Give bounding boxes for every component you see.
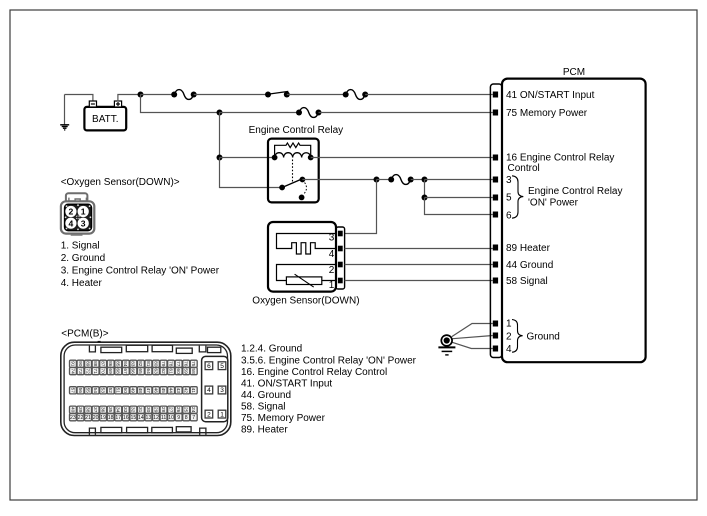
PCM(B) connector outer shell: [61, 342, 231, 435]
brace pins 3-5-6: [512, 176, 523, 218]
svg-text:84: 84: [122, 361, 128, 367]
svg-text:33: 33: [122, 407, 128, 413]
svg-text:63: 63: [152, 368, 158, 374]
svg-text:2: 2: [506, 332, 512, 343]
PCM(B) bottom tabs: [89, 427, 205, 435]
svg-text:36: 36: [99, 407, 105, 413]
wire relay switch out: [302, 179, 376, 181]
svg-text:2: 2: [207, 411, 211, 418]
svg-text:4: 4: [506, 344, 512, 355]
svg-text:44. Ground: 44. Ground: [241, 390, 291, 401]
PCM(B) small pin rows: [69, 360, 197, 421]
wire down to pin 5: [424, 180, 426, 198]
svg-text:53: 53: [99, 388, 105, 394]
svg-text:54: 54: [92, 388, 98, 394]
svg-text:2: 2: [69, 207, 74, 217]
svg-text:89. Heater: 89. Heater: [241, 425, 288, 436]
svg-text:86: 86: [107, 361, 113, 367]
svg-text:85: 85: [115, 361, 121, 367]
svg-text:78: 78: [167, 361, 173, 367]
svg-text:62: 62: [160, 368, 166, 374]
svg-text:12: 12: [153, 415, 159, 421]
PCM pin 16: [493, 155, 498, 161]
svg-text:60: 60: [175, 368, 181, 374]
brace pins 1-2-4: [512, 320, 523, 353]
PCM pin 41: [493, 92, 498, 98]
svg-text:89 Heater: 89 Heater: [506, 243, 551, 254]
wire down and to PCM pin 6: [425, 198, 493, 215]
svg-text:42: 42: [182, 388, 188, 394]
wire sensor pin 1 to PCM 58: [345, 280, 493, 282]
wire down to oxygen sensor pin 3: [345, 180, 377, 234]
svg-text:67: 67: [122, 368, 128, 374]
svg-text:75. Memory Power: 75. Memory Power: [241, 413, 326, 424]
svg-text:56: 56: [77, 388, 83, 394]
svg-text:59: 59: [183, 368, 189, 374]
wire ground to PCM pin 2: [453, 336, 493, 339]
relay K1 Engine Control Relay box: [268, 139, 319, 203]
wire switch to fuse 2: [287, 94, 346, 96]
svg-text:Control: Control: [508, 163, 540, 174]
svg-text:41. ON/START Input: 41. ON/START Input: [241, 378, 332, 389]
svg-text:20: 20: [93, 415, 99, 421]
svg-text:87: 87: [99, 361, 105, 367]
wire to fuse 1: [141, 94, 175, 96]
battery BATT.: [84, 101, 126, 130]
wire sensor pin 2 to PCM 44: [345, 264, 493, 266]
svg-text:75 Memory Power: 75 Memory Power: [506, 108, 588, 119]
wire fuse 3 to PCM pin 75: [319, 112, 493, 114]
svg-text:10: 10: [168, 415, 174, 421]
svg-text:Oxygen Sensor(DOWN): Oxygen Sensor(DOWN): [252, 296, 359, 307]
svg-text:5: 5: [220, 363, 224, 370]
svg-text:76: 76: [182, 361, 188, 367]
wire ground to PCM pin 4: [452, 342, 493, 348]
relay actuating dashed link: [292, 160, 294, 182]
svg-text:24: 24: [190, 407, 196, 413]
PCM connector strip: [490, 84, 502, 358]
PCM pin 44: [493, 262, 498, 268]
PCM pin 1: [493, 321, 498, 327]
svg-text:Engine Control Relay: Engine Control Relay: [249, 125, 344, 136]
svg-text:15: 15: [130, 415, 136, 421]
svg-text:4: 4: [329, 249, 335, 260]
wire fuse 2 to PCM pin 41: [365, 94, 493, 96]
oxygen sensor connector icon: [61, 193, 94, 236]
svg-text:44 Ground: 44 Ground: [506, 260, 553, 271]
svg-text:32: 32: [130, 407, 136, 413]
PCM pin 58: [493, 278, 498, 284]
PCM pin 2: [493, 333, 498, 339]
svg-text:74: 74: [69, 368, 75, 374]
svg-text:70: 70: [99, 368, 105, 374]
svg-text:68: 68: [115, 368, 121, 374]
svg-text:57: 57: [69, 388, 75, 394]
svg-text:34: 34: [115, 407, 121, 413]
svg-text:PCM: PCM: [563, 67, 585, 78]
wire battery positive up to bus: [118, 95, 141, 102]
svg-text:65: 65: [137, 368, 143, 374]
PCM pin 75: [493, 110, 498, 116]
svg-text:11: 11: [161, 415, 166, 421]
svg-text:17: 17: [115, 415, 121, 421]
svg-text:3. Engine Control Relay 'ON' P: 3. Engine Control Relay 'ON' Power: [61, 266, 220, 277]
svg-text:21: 21: [85, 415, 91, 421]
node pin3 junction: [422, 177, 428, 183]
svg-text:35: 35: [107, 407, 113, 413]
svg-text:30: 30: [145, 407, 151, 413]
wire down to relay coil: [219, 113, 221, 158]
svg-text:1.2.4. Ground: 1.2.4. Ground: [241, 344, 302, 355]
svg-text:31: 31: [137, 407, 143, 413]
wire sensor pin 4 to PCM 89: [345, 248, 493, 250]
svg-text:44: 44: [167, 388, 173, 394]
svg-text:71: 71: [92, 368, 98, 374]
svg-text:26: 26: [175, 407, 181, 413]
svg-text:3.5.6. Engine Control Relay 'O: 3.5.6. Engine Control Relay 'ON' Power: [241, 355, 417, 366]
PCM(B) pin 6: [205, 362, 213, 370]
node relay coil feed junction: [217, 155, 223, 161]
wire battery negative to ground: [65, 95, 93, 102]
svg-text:81: 81: [145, 361, 151, 367]
oxygen sensor connector strip: [336, 227, 345, 289]
svg-text:4: 4: [207, 387, 211, 394]
node sensor power junction: [374, 177, 380, 183]
svg-text:1: 1: [329, 280, 335, 291]
svg-text:91: 91: [69, 361, 75, 367]
svg-text:66: 66: [130, 368, 136, 374]
svg-text:13: 13: [146, 415, 152, 421]
PCM(B) pin 5: [218, 362, 226, 370]
svg-text:64: 64: [145, 368, 151, 374]
svg-text:28: 28: [160, 407, 166, 413]
svg-text:<PCM(B)>: <PCM(B)>: [61, 328, 108, 339]
svg-text:90: 90: [77, 361, 83, 367]
wire ground to PCM pin 1: [452, 324, 493, 337]
svg-text:3: 3: [329, 232, 335, 243]
wire fuse 4 to pins 3/5/6 junction: [411, 179, 425, 181]
chassis ground symbol: [438, 335, 455, 355]
svg-text:27: 27: [167, 407, 173, 413]
svg-text:72: 72: [84, 368, 90, 374]
svg-text:8: 8: [185, 415, 188, 421]
svg-text:5: 5: [506, 193, 512, 204]
svg-text:16 Engine Control Relay: 16 Engine Control Relay: [506, 153, 614, 164]
svg-text:73: 73: [77, 368, 83, 374]
svg-text:<Oxygen Sensor(DOWN)>: <Oxygen Sensor(DOWN)>: [61, 177, 180, 188]
svg-text:39: 39: [77, 407, 83, 413]
wire to PCM pin 3: [425, 179, 493, 181]
wire memory power branch down: [141, 95, 220, 113]
svg-text:18: 18: [108, 415, 114, 421]
svg-text:58: 58: [190, 368, 196, 374]
svg-text:4: 4: [69, 218, 74, 228]
PCM pin 4: [493, 346, 498, 352]
wire to PCM pin 5: [425, 197, 493, 199]
wire down to relay switch common: [220, 158, 283, 188]
svg-text:49: 49: [130, 388, 136, 394]
relay switch: [279, 177, 306, 201]
node pin5 junction: [422, 195, 428, 201]
PCM(B) top tabs: [89, 345, 220, 353]
svg-text:19: 19: [100, 415, 106, 421]
svg-text:14: 14: [138, 415, 144, 421]
svg-text:16: 16: [123, 415, 129, 421]
svg-text:61: 61: [167, 368, 173, 374]
svg-text:47: 47: [145, 388, 151, 394]
svg-text:1. Signal: 1. Signal: [61, 241, 100, 252]
svg-text:29: 29: [152, 407, 158, 413]
svg-text:2. Ground: 2. Ground: [61, 253, 105, 264]
fuse F2: [343, 90, 369, 100]
svg-text:3: 3: [506, 175, 512, 186]
svg-text:7: 7: [192, 415, 195, 421]
svg-text:1: 1: [220, 411, 224, 418]
PCM(B) pin 3: [218, 386, 226, 394]
svg-text:Engine Control Relay: Engine Control Relay: [528, 186, 623, 197]
svg-text:83: 83: [130, 361, 136, 367]
svg-text:51: 51: [115, 388, 121, 394]
node relay feed junction: [217, 110, 223, 116]
PCM box: [502, 79, 646, 363]
svg-text:69: 69: [107, 368, 113, 374]
ignition switch: [265, 91, 290, 97]
svg-text:46: 46: [152, 388, 158, 394]
svg-text:6: 6: [506, 210, 512, 221]
fuse F3: [296, 108, 322, 118]
fuse F1: [171, 90, 197, 100]
PCM(B) big-pin compartment: [202, 356, 228, 421]
svg-text:22: 22: [78, 415, 84, 421]
svg-text:9: 9: [177, 415, 180, 421]
svg-text:'ON' Power: 'ON' Power: [528, 197, 579, 208]
svg-text:3: 3: [81, 218, 86, 228]
battery ground: [60, 95, 69, 130]
svg-text:40: 40: [69, 407, 75, 413]
svg-text:2: 2: [329, 265, 335, 276]
svg-text:6: 6: [207, 363, 211, 370]
svg-text:89: 89: [84, 361, 90, 367]
wire junction to relay coil left: [220, 157, 275, 159]
sensor heater element: [277, 234, 338, 255]
svg-text:1: 1: [506, 319, 512, 330]
svg-text:Ground: Ground: [527, 331, 560, 342]
PCM(B) pin 1: [218, 410, 226, 418]
svg-text:55: 55: [84, 388, 90, 394]
svg-text:BATT.: BATT.: [92, 114, 118, 125]
svg-text:1: 1: [81, 207, 86, 217]
svg-text:43: 43: [175, 388, 181, 394]
PCM pin 89: [493, 245, 498, 251]
svg-text:23: 23: [70, 415, 76, 421]
svg-text:3: 3: [220, 387, 224, 394]
svg-text:58. Signal: 58. Signal: [241, 401, 285, 412]
fuse F4: [388, 175, 414, 185]
svg-text:45: 45: [160, 388, 166, 394]
svg-text:4. Heater: 4. Heater: [61, 278, 103, 289]
relay coil: [272, 153, 314, 161]
svg-text:80: 80: [152, 361, 158, 367]
svg-text:41: 41: [190, 388, 196, 394]
wire fuse 1 to ignition switch: [194, 94, 268, 96]
svg-text:37: 37: [92, 407, 98, 413]
PCM pin 6: [493, 212, 498, 218]
svg-text:88: 88: [92, 361, 98, 367]
PCM(B) pin 4: [205, 386, 213, 394]
wire to fuse 3: [220, 112, 300, 114]
svg-text:25: 25: [183, 407, 189, 413]
sensor pin squares: [338, 231, 343, 237]
PCM pin 5: [493, 195, 498, 201]
svg-text:50: 50: [122, 388, 128, 394]
svg-text:79: 79: [160, 361, 166, 367]
svg-text:48: 48: [137, 388, 143, 394]
svg-text:58 Signal: 58 Signal: [506, 276, 548, 287]
svg-text:16. Engine Control Relay Contr: 16. Engine Control Relay Control: [241, 367, 387, 378]
node battery positive junction: [138, 92, 144, 98]
svg-text:77: 77: [175, 361, 181, 367]
wire relay coil to PCM pin 16: [311, 157, 493, 159]
svg-text:75: 75: [190, 361, 196, 367]
svg-text:52: 52: [107, 388, 113, 394]
PCM(B) pin 2: [205, 410, 213, 418]
svg-text:38: 38: [84, 407, 90, 413]
oxygen sensor box: [268, 222, 336, 292]
svg-text:82: 82: [137, 361, 143, 367]
sensor sensing element: [277, 265, 338, 288]
wire to fuse 4: [377, 179, 392, 181]
PCM pin 3: [493, 177, 498, 183]
svg-text:41 ON/START Input: 41 ON/START Input: [506, 90, 595, 101]
relay resistor: [275, 143, 311, 158]
